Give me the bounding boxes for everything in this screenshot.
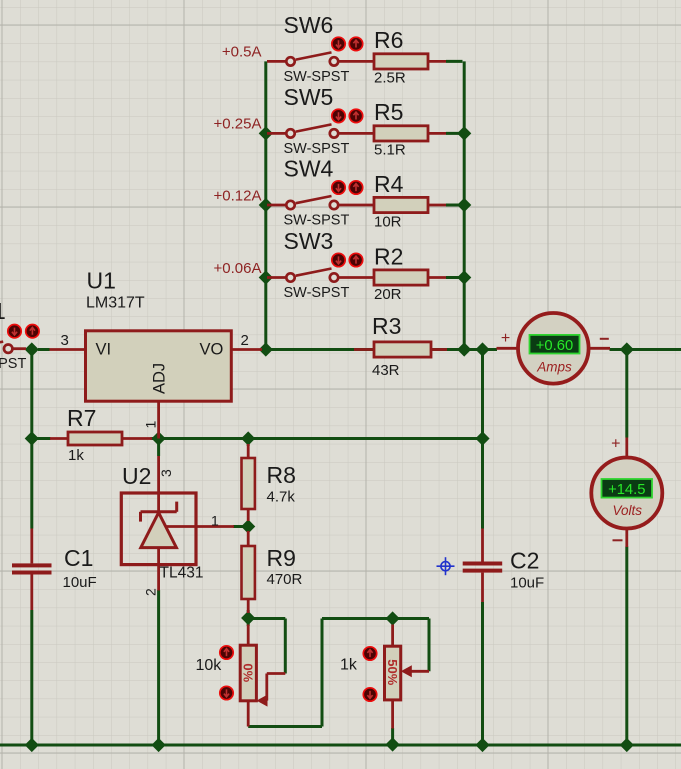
wire RV1 wiper loop v — [284, 619, 287, 674]
svg-text:1k: 1k — [340, 657, 358, 674]
svg-text:R2: R2 — [374, 243, 403, 269]
svg-text:R4: R4 — [374, 171, 404, 197]
svg-text:+0.06A: +0.06A — [214, 260, 262, 277]
svg-text:+0.5A: +0.5A — [222, 44, 262, 61]
wire left rail of switch bank — [264, 61, 267, 349]
node ammeter- rail — [620, 343, 633, 356]
svg-text:C1: C1 — [64, 545, 93, 571]
svg-text:U1: U1 — [87, 268, 116, 294]
svg-text:+: + — [611, 436, 620, 453]
svg-text:SW5: SW5 — [284, 84, 334, 110]
wire C1 to ground rail — [30, 610, 33, 745]
wire C2 to ground rail — [481, 602, 484, 745]
wire RV1 bottom loop h — [248, 725, 322, 728]
voltmeter (Volts, +14.5) — [625, 438, 628, 458]
svg-text:VO: VO — [200, 341, 224, 359]
resistor R4 10R — [339, 204, 374, 207]
wire C1 branch upper — [30, 439, 33, 529]
svg-text:2: 2 — [143, 588, 159, 596]
switch SW4 (SW-SPST) — [267, 204, 286, 207]
svg-text:+0.25A: +0.25A — [214, 116, 262, 133]
resistor R7 1k — [50, 437, 68, 440]
svg-text:+14.5: +14.5 — [608, 482, 645, 498]
node row4 left — [259, 271, 272, 284]
wire RV1 top to wiper loop h — [248, 617, 285, 620]
wire link RV1 to RV2 — [322, 617, 393, 620]
svg-text:LM317T: LM317T — [86, 295, 145, 312]
svg-text:SW3: SW3 — [284, 228, 334, 254]
resistor R5 5.1R — [339, 132, 374, 135]
svg-text:SW-SPST: SW-SPST — [284, 213, 350, 229]
wire main output net VO row — [261, 348, 497, 351]
svg-text:10uF: 10uF — [63, 574, 97, 591]
node gnd C1 — [25, 739, 38, 752]
node gnd U2 — [152, 739, 165, 752]
svg-text:3: 3 — [158, 469, 174, 477]
svg-text:4.7k: 4.7k — [267, 489, 296, 506]
svg-text:C2: C2 — [510, 548, 539, 574]
svg-text:SW-SPST: SW-SPST — [284, 141, 350, 157]
node C2 top — [476, 432, 489, 445]
node row3 right — [458, 199, 471, 212]
potentiometer RV1 10k — [247, 625, 250, 646]
svg-text:+0.12A: +0.12A — [214, 187, 262, 204]
wire R7 row right to C2 rail — [248, 437, 482, 440]
wire right rail of resistor bank — [463, 61, 466, 349]
ammeter (Amps, +0.60) — [497, 347, 519, 350]
major grid — [1, 0, 3, 769]
wire U2 cathode-node to R8 — [247, 439, 250, 447]
svg-text:Amps: Amps — [536, 359, 572, 374]
switch SW1 (partial, clipped at left edge) — [4, 345, 12, 353]
node RV2 top — [386, 612, 399, 625]
wire voltmeter to ground rail — [625, 547, 628, 746]
resistor R6 2.5R — [339, 60, 374, 63]
node row2 left — [259, 127, 272, 140]
svg-text:1: 1 — [211, 513, 219, 529]
transistor U2 TL431 shunt regulator — [121, 493, 196, 565]
svg-text:43R: 43R — [372, 362, 400, 379]
node gnd C2 — [476, 739, 489, 752]
node row3 left — [259, 199, 272, 212]
svg-text:3: 3 — [61, 332, 69, 349]
svg-text:5.1R: 5.1R — [374, 142, 406, 159]
node R7 left — [25, 432, 38, 445]
wire ammeter left green — [483, 348, 497, 351]
svg-text:Volts: Volts — [613, 503, 643, 518]
resistor R2 20R — [339, 276, 374, 279]
svg-text:R8: R8 — [267, 462, 296, 488]
svg-text:SW6: SW6 — [284, 12, 334, 38]
wire RV2 wiper loop v — [428, 619, 431, 672]
svg-text:470R: 470R — [267, 571, 303, 588]
wire ADJ node down to U2 — [157, 439, 160, 457]
svg-text:+: + — [501, 330, 510, 347]
svg-text:R5: R5 — [374, 99, 403, 125]
wire RV2 top to wiper loop h — [393, 617, 429, 620]
svg-text:TL431: TL431 — [160, 565, 204, 582]
wire RV1 bottom loop riser — [321, 619, 324, 727]
wire U2 ref node — [233, 525, 248, 528]
svg-text:2: 2 — [241, 332, 249, 349]
svg-text:R3: R3 — [372, 313, 401, 339]
svg-text:SW-SPST: SW-SPST — [284, 69, 350, 85]
wire C2 rail upper — [481, 350, 484, 529]
resistor R8 4.7k — [247, 444, 250, 458]
capacitor C1 10uF — [30, 529, 33, 564]
node C2 branch — [476, 343, 489, 356]
node gnd voltmeter — [620, 739, 633, 752]
node U2 ref/R8/R9 — [242, 520, 255, 533]
node R8 top — [242, 432, 255, 445]
wire ground rail — [0, 744, 681, 747]
node origin marker (blue crosshair) — [437, 557, 455, 575]
wire U2 anode to ground rail — [157, 590, 160, 745]
resistor R9 470R — [247, 531, 250, 546]
switch SW3 (SW-SPST) — [267, 276, 286, 279]
svg-text:SW4: SW4 — [284, 156, 334, 182]
svg-text:+0.60: +0.60 — [536, 338, 573, 354]
switch SW6 (SW-SPST) — [267, 60, 286, 63]
svg-text:1k: 1k — [68, 447, 84, 464]
svg-text:2.5R: 2.5R — [374, 70, 406, 87]
node R3 right — [458, 343, 471, 356]
wire RV2 bottom to ground rail — [391, 728, 394, 745]
capacitor C2 10uF — [481, 529, 484, 562]
svg-text:R6: R6 — [374, 27, 403, 53]
svg-text:10k: 10k — [196, 657, 223, 674]
wire R7 row left — [32, 437, 51, 440]
node R9 bottom — [242, 612, 255, 625]
switch SW5 (SW-SPST) — [267, 132, 286, 135]
node gnd RV2 — [386, 738, 399, 751]
svg-text:20R: 20R — [374, 286, 402, 303]
potentiometer RV2 1k 50% — [391, 625, 394, 647]
svg-text:SW-SPST: SW-SPST — [284, 285, 350, 301]
svg-text:R7: R7 — [67, 405, 96, 431]
svg-text:10R: 10R — [374, 213, 402, 230]
node ADJ/R7 — [152, 432, 165, 445]
wire VI node vertical — [30, 350, 33, 439]
node row2 right — [458, 127, 471, 140]
wire VI node to U1 — [38, 348, 50, 351]
resistor R3 43R — [354, 348, 374, 351]
wire right rail down to voltmeter — [625, 350, 628, 438]
svg-text:1: 1 — [143, 421, 159, 429]
node SW1 output — [25, 343, 38, 356]
svg-text:0%: 0% — [241, 663, 256, 682]
wire R7 row mid — [151, 437, 249, 440]
svg-text:VI: VI — [96, 341, 112, 359]
wire ammeter- to right rail — [610, 348, 681, 351]
svg-text:U2: U2 — [122, 463, 151, 489]
svg-text:R9: R9 — [267, 545, 296, 571]
svg-text:10uF: 10uF — [510, 575, 544, 592]
svg-text:SW-SPST: SW-SPST — [0, 356, 26, 372]
svg-text:SW1: SW1 — [0, 298, 6, 324]
svg-text:ADJ: ADJ — [151, 363, 169, 394]
wire R9 to RV1 — [247, 610, 250, 626]
svg-text:50%: 50% — [385, 659, 400, 685]
node row4 right — [458, 271, 471, 284]
node VO rail — [259, 343, 272, 356]
op-amp U1 LM317T regulator body — [86, 331, 232, 401]
